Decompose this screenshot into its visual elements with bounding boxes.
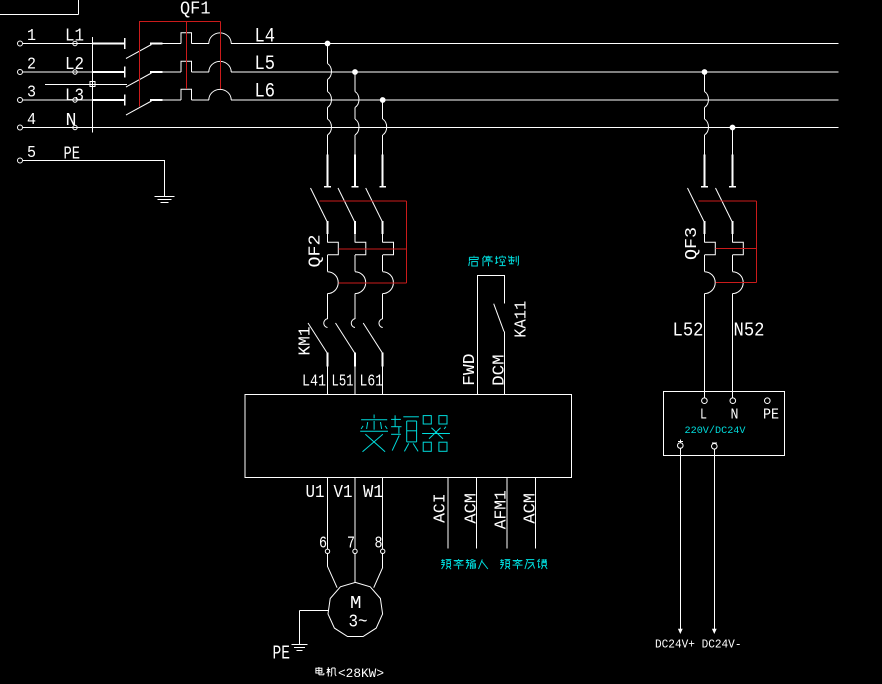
svg-text:L3: L3 xyxy=(65,87,84,107)
svg-text:W1: W1 xyxy=(363,483,384,503)
svg-text:DC24V+ DC24V-: DC24V+ DC24V- xyxy=(655,638,742,652)
svg-text:AFM1: AFM1 xyxy=(493,490,512,529)
svg-text:6: 6 xyxy=(319,535,327,554)
svg-text:QF1: QF1 xyxy=(180,0,211,20)
svg-text:8: 8 xyxy=(375,535,383,554)
svg-text:QF3: QF3 xyxy=(683,227,702,260)
svg-text:ACI: ACI xyxy=(432,493,451,523)
svg-text:L51: L51 xyxy=(332,373,354,392)
svg-text:L41: L41 xyxy=(302,373,326,392)
svg-text:N: N xyxy=(731,406,739,423)
svg-text:PE: PE xyxy=(273,643,291,665)
svg-text:QF2: QF2 xyxy=(307,235,326,268)
svg-text:ACM: ACM xyxy=(522,493,541,524)
svg-text:U1: U1 xyxy=(306,483,325,503)
svg-text:L4: L4 xyxy=(255,26,276,49)
svg-text:M: M xyxy=(350,594,362,614)
svg-text:ACM: ACM xyxy=(463,493,482,524)
svg-text:L52: L52 xyxy=(673,319,704,341)
svg-text:N52: N52 xyxy=(734,319,765,341)
svg-text:PE: PE xyxy=(763,406,779,423)
svg-text:3~: 3~ xyxy=(349,613,368,633)
svg-text:L5: L5 xyxy=(255,53,276,76)
svg-text:7: 7 xyxy=(347,535,355,554)
svg-text:FWD: FWD xyxy=(461,353,480,386)
svg-text:L61: L61 xyxy=(360,373,384,392)
svg-text:PE: PE xyxy=(64,145,81,165)
svg-text:KA11: KA11 xyxy=(513,301,532,338)
svg-text:V1: V1 xyxy=(334,483,353,503)
svg-text:KM1: KM1 xyxy=(297,327,316,356)
svg-text:220V/DC24V: 220V/DC24V xyxy=(685,425,746,437)
svg-text:<28KW>: <28KW> xyxy=(338,666,384,681)
svg-text:DCM: DCM xyxy=(491,354,510,385)
svg-text:L6: L6 xyxy=(255,81,276,104)
svg-text:L: L xyxy=(700,406,707,423)
